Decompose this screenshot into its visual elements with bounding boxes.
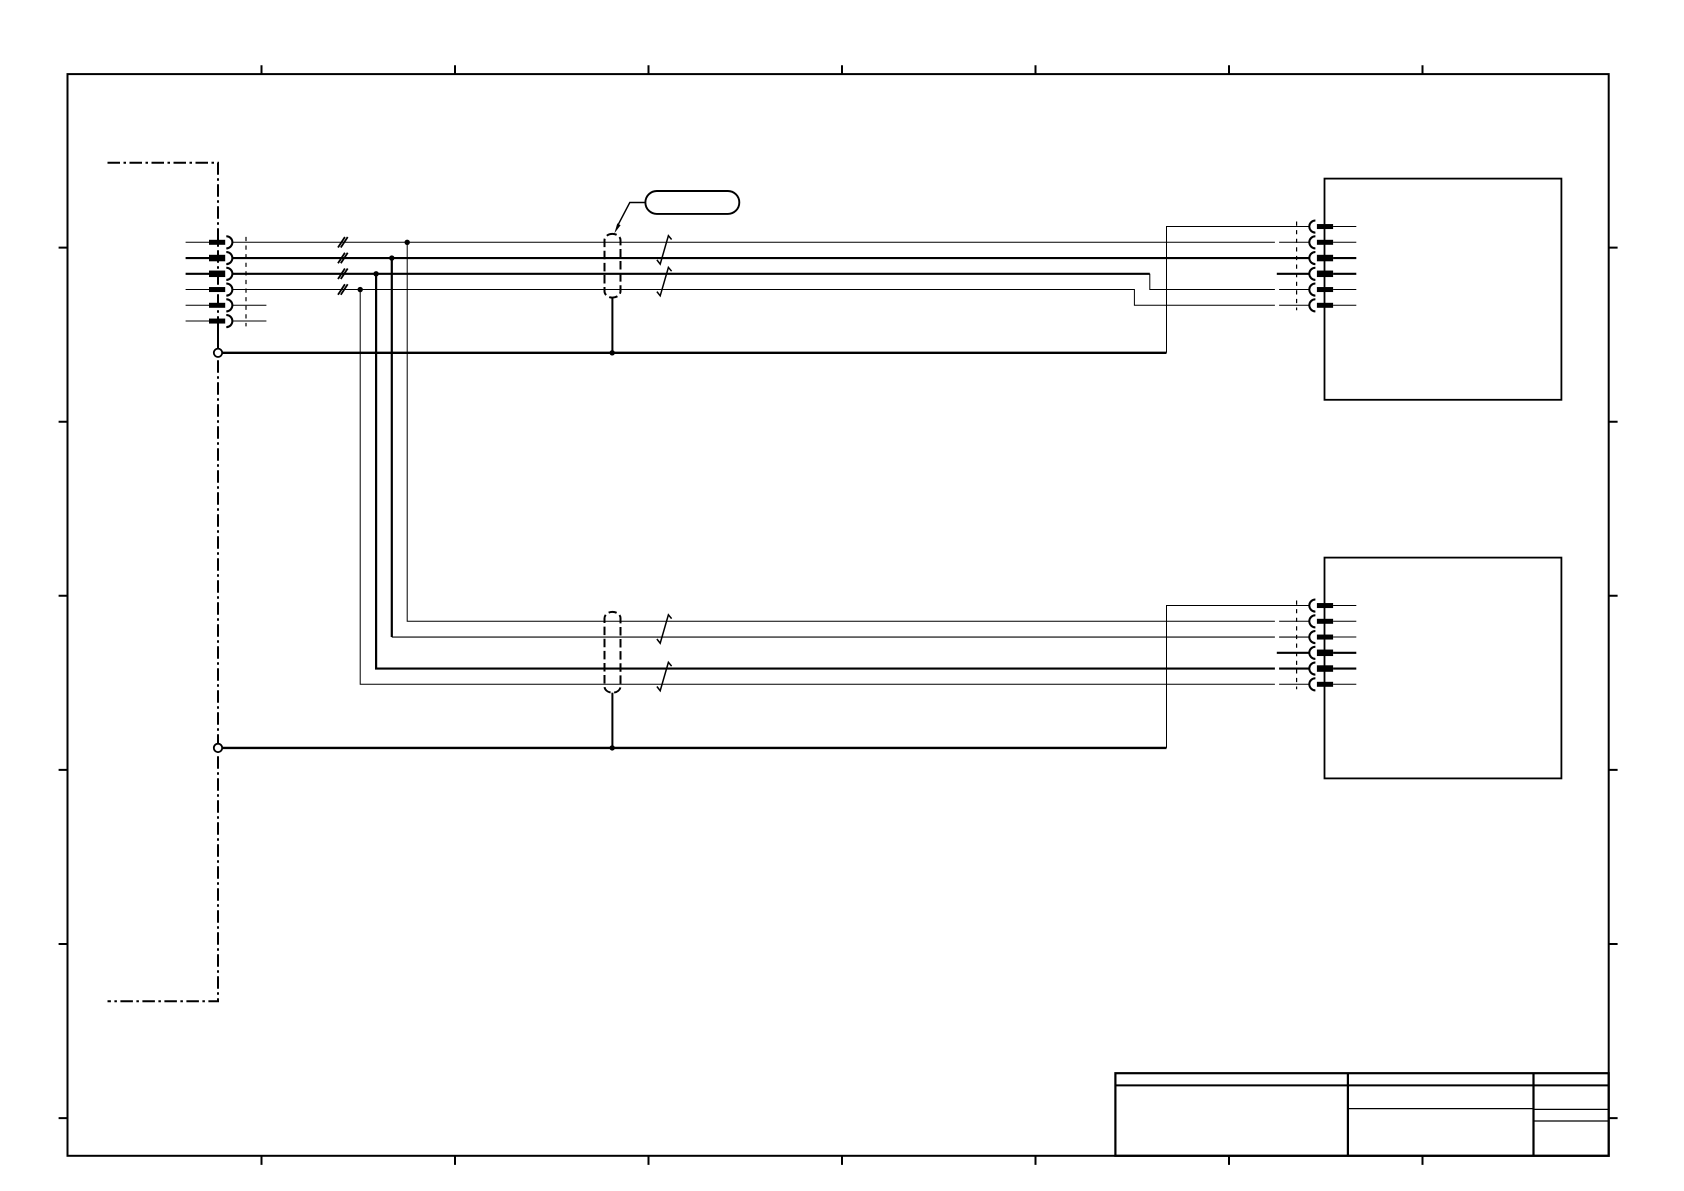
left connector J1 pin 5 [186,299,267,311]
branch wire B2: W2 down (thick) then right (thin) to bottom box pin3 [391,258,393,637]
U2 pin 3 [1309,631,1356,643]
U2 pin 1 [1309,599,1356,611]
junction node on W4 [358,287,363,292]
conductor-count slash (hooked) across W3/W4 [657,267,672,295]
shield node (open circle) top [214,349,222,357]
title block (decorative) [1115,1073,1608,1156]
U2 pin 5 [1309,662,1356,674]
left connector J1 pin 3 [186,268,233,280]
left connector J1 pin 1 [186,236,233,248]
branch wire B4 (thin): W4 down to bottom box pin6 [360,290,1309,685]
junction node on W3 [373,271,378,276]
conductor-pair marks // on W4 [338,284,348,295]
U1 pin 5 [1309,283,1356,295]
conductor-pair marks // on W2 [338,253,348,263]
U2 pin 6 [1309,678,1356,690]
junction node on W1 [405,240,410,245]
left connector J1 pin 4 [186,283,233,295]
shield drain wire of CS1 [611,298,613,353]
branch wire B1 (thin): W1 down to bottom box pin2 [407,242,1309,621]
U1 pin 3 [1309,252,1356,264]
enclosure boundary (dash-dot) of left unit [108,163,219,1001]
U1 pin 2 [1309,236,1356,248]
bottom box connector group line (dashed) [1296,601,1298,690]
shield node (open circle) bottom [214,744,222,752]
shield drain wire of CS2 [611,693,613,748]
wire W2 (thick): J1 pin2 to top box pin3 [233,257,1310,259]
bottom box (unit U2) [1325,558,1562,779]
top box (unit U1) [1325,179,1562,400]
cable shield symbol CS1 (dashed obround, top cable) [605,234,621,298]
U1 pin 1 [1309,220,1356,232]
wire: connector shell to shield node (solid segment on boundary) [217,322,219,348]
U1 pin 4 with stub wire [1277,268,1357,280]
top box connector group line (dashed) [1296,222,1298,311]
shield bus (thick) top [222,352,1166,354]
left connector J1 pin 6 [186,315,267,327]
wire W4 (thin): J1 pin4, steps down to top box pin6 [233,290,1310,306]
junction node: CS1 drain to shield bus [610,350,615,355]
U2 pin 2 [1309,615,1356,627]
branch wire B3 (thick): W3 down to bottom box pin5 [376,274,1309,669]
wire W1 (thin): J1 pin1 to top box pin2 [233,241,1310,243]
junction node on W2 [389,255,394,260]
shield bus (thick) bottom [222,747,1166,749]
junction node: CS2 drain to bottom shield bus [610,745,615,750]
left connector J1 pin 2 [186,252,233,264]
shield riser wire to top box pin1 [1167,227,1310,353]
cable shield symbol CS2 (dashed obround, bottom cable) [605,612,621,693]
wire W3 (thick): J1 pin3, steps down to top box pin5 [233,273,1150,275]
conductor-count slash (hooked) across B1/B2 [657,615,672,643]
U2 pin 4 with stub wire [1277,647,1357,659]
conductor-count slash (hooked) across B3/B4 [657,662,672,690]
conductor-pair marks // on W1 [338,237,348,248]
conductor-pair marks // on W3 [338,269,348,280]
balloon label (empty stadium callout) [614,191,739,233]
left connector J1 group line (dashed) [245,237,247,327]
wire W3 step segment (thin) [1150,274,1309,290]
shield riser wire to bottom box pin1 [1167,606,1310,748]
U1 pin 6 [1309,299,1356,311]
conductor-count slash (hooked) across W1/W2 [657,236,672,264]
